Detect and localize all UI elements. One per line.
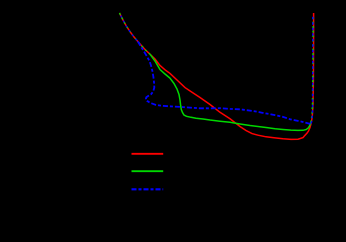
legend sample blue (dashed) <box>132 188 164 190</box>
curve blue B vertical (finely dashed, overlaps red/green verticals) <box>311 16 313 123</box>
legend sample green <box>132 170 164 172</box>
curve blue B body (dashed) <box>138 41 311 123</box>
curve red R (solid) <box>120 13 314 139</box>
curve green G vertical (dotted, overlaps red vertical) <box>311 16 313 123</box>
curve green G tail (solid) <box>150 54 311 130</box>
curve blue B head (dashed, overlaps shared branch) <box>120 13 138 41</box>
legend sample red <box>132 153 164 155</box>
curve green G head (dotted, overlaps red on shared branch) <box>120 13 151 54</box>
